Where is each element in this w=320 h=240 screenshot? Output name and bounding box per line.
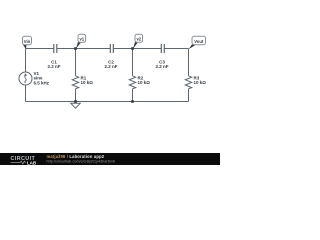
capacitor C1 2.2 nF xyxy=(47,44,60,69)
node flag v1 xyxy=(76,34,86,49)
svg-text:2.2 nF: 2.2 nF xyxy=(155,64,168,69)
svg-text:v2: v2 xyxy=(136,37,141,42)
svg-text:10 kΩ: 10 kΩ xyxy=(138,80,151,85)
capacitor C2 2.2 nF xyxy=(104,44,117,69)
wire top rail C3 to Vout xyxy=(164,48,189,50)
svg-text:Vin: Vin xyxy=(24,39,31,44)
wire top rail Vin to C1 xyxy=(26,48,54,50)
junction dot node v1 top xyxy=(74,47,77,50)
resistor R3 10 kOhm xyxy=(185,49,206,102)
voltage source V1 6.5 kHz sine xyxy=(19,49,50,102)
resistor R1 10 kOhm xyxy=(72,49,93,102)
wire bottom ground rail xyxy=(26,101,189,103)
capacitor C3 2.2 nF xyxy=(155,44,168,69)
wire top rail C1 to C2 xyxy=(57,48,111,50)
CircuitLab watermark bar xyxy=(0,153,220,165)
resistor R2 10 kOhm xyxy=(129,49,150,102)
svg-text:Vout: Vout xyxy=(194,39,204,44)
ground xyxy=(71,102,80,109)
junction dot node v2 bottom xyxy=(131,100,134,103)
junction dot node v2 top xyxy=(131,47,134,50)
node flag Vin xyxy=(23,36,32,49)
node flag Vout xyxy=(189,36,206,49)
svg-text:2.2 nF: 2.2 nF xyxy=(47,64,60,69)
wire top rail C2 to C3 xyxy=(113,48,161,50)
svg-text:LAB: LAB xyxy=(27,160,37,165)
svg-text:10 kΩ: 10 kΩ xyxy=(81,80,94,85)
svg-text:2.2 nF: 2.2 nF xyxy=(104,64,117,69)
svg-text:10 kΩ: 10 kΩ xyxy=(194,80,207,85)
svg-text:6.5 kHz: 6.5 kHz xyxy=(34,81,50,86)
junction dot node v1 bottom xyxy=(74,100,77,103)
svg-text:v1: v1 xyxy=(79,37,84,42)
svg-text:http://circuitlab.com/c/cr8y2/: http://circuitlab.com/c/cr8y2/1y43har6rv… xyxy=(47,159,116,163)
node flag v2 xyxy=(133,34,143,49)
